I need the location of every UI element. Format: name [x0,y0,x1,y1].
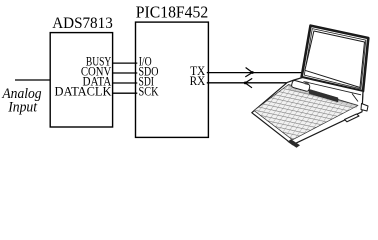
laptop lid outer [302,26,369,92]
laptop button panel [291,80,310,92]
svg-text:RX: RX [190,74,206,88]
box U1 ADS7813 [50,33,112,127]
wire DATA to SDI [112,82,137,84]
box U2 PIC18F452 [136,22,209,137]
svg-text:Input: Input [7,100,38,116]
svg-text:SCK: SCK [139,84,159,98]
laptop keyboard deck [254,85,358,140]
wire analog input [15,79,50,81]
arrow on RX wire [244,78,252,87]
wire BUSY to I/O [112,62,137,64]
laptop base right edge [352,91,363,112]
laptop lid bezel line [304,29,366,89]
wire DATACLK to SCK [112,92,137,94]
laptop foot front [288,139,301,148]
laptop hinge lip line [304,82,362,95]
wire TX to laptop [207,72,303,74]
laptop foot right [345,114,360,122]
wire RX to laptop [207,82,289,84]
laptop base silhouette [252,78,363,145]
laptop screen [305,31,365,88]
svg-text:ADS7813: ADS7813 [52,15,113,32]
wire CONV to SDO [112,72,137,74]
laptop deck shadow under hinge [288,86,359,109]
laptop dark slot [309,89,338,102]
laptop computer [252,26,368,148]
arrow on TX wire [245,68,254,77]
svg-text:PIC18F452: PIC18F452 [136,2,208,21]
laptop button panel tick [305,81,309,85]
svg-text:DATACLK: DATACLK [55,84,112,98]
laptop side port tab [361,104,368,112]
